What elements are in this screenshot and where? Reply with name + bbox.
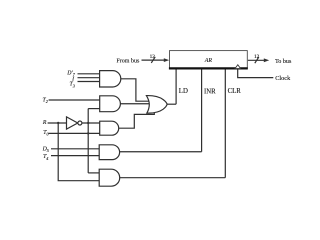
- svg-text:T0: T0: [43, 130, 49, 137]
- svg-text:To bus: To bus: [275, 59, 292, 65]
- svg-text:Clock: Clock: [275, 75, 291, 82]
- svg-text:T4: T4: [43, 154, 48, 161]
- svg-text:CLR: CLR: [228, 88, 242, 95]
- svg-text:12: 12: [254, 54, 260, 60]
- svg-text:T2: T2: [42, 97, 47, 104]
- svg-text:INR: INR: [204, 89, 216, 96]
- svg-text:D′7: D′7: [66, 70, 75, 77]
- svg-text:LD: LD: [179, 88, 188, 95]
- svg-text:12: 12: [150, 54, 156, 60]
- svg-text:R: R: [42, 120, 47, 126]
- svg-text:T3: T3: [69, 82, 74, 89]
- svg-text:D5: D5: [42, 146, 49, 153]
- svg-text:AR: AR: [204, 58, 213, 64]
- svg-text:From bus: From bus: [116, 58, 140, 64]
